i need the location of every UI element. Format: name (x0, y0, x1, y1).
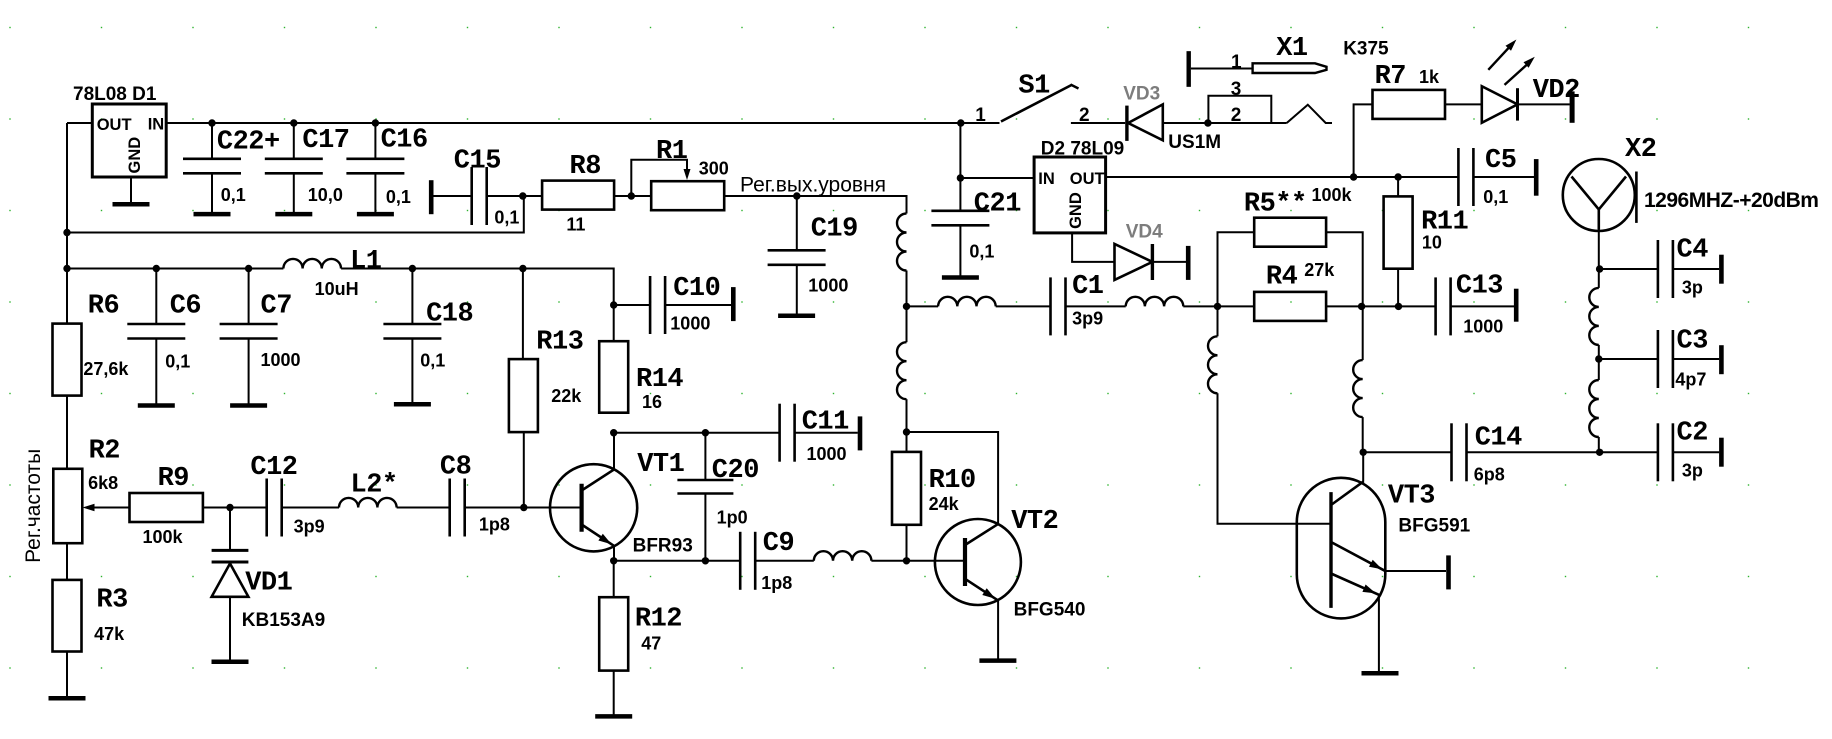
end terminal of C15 (429, 180, 434, 214)
wire VT3 collector riser (1362, 452, 1364, 481)
svg-text:L1: L1 (350, 247, 382, 277)
wire D2 OUT 9V bus (1106, 176, 1459, 178)
ground of VT2 (979, 658, 1016, 663)
svg-text:C16: C16 (381, 126, 428, 156)
wire R10 top stem (906, 432, 908, 452)
svg-text:1p0: 1p0 (717, 507, 748, 527)
wire coil to C1 (996, 305, 1051, 307)
svg-text:1000: 1000 (1463, 317, 1503, 337)
svg-text:3p: 3p (1682, 277, 1703, 297)
ground of D1 (113, 202, 150, 207)
wire +12V top bus D1 IN to S1 (166, 122, 961, 124)
wire C21 stem bottom (959, 225, 961, 276)
resistor R3 (53, 580, 128, 652)
svg-text:L2*: L2* (351, 471, 398, 501)
wire R13 bottom to base node (523, 431, 525, 507)
wire VT1 emitter row to C9 (614, 560, 741, 562)
svg-text:C1: C1 (1072, 272, 1104, 302)
svg-text:6k8: 6k8 (88, 473, 118, 493)
wire C18 bottom stem (411, 339, 413, 403)
wire C7 bottom stem (248, 339, 250, 405)
svg-text:X2: X2 (1625, 135, 1656, 165)
resistor R13 (509, 328, 584, 432)
end terminal of C3 (1719, 345, 1724, 374)
coil between C9 and VT2 (814, 551, 872, 561)
svg-text:C14: C14 (1475, 424, 1522, 454)
resistor R14 (599, 341, 683, 413)
resistor R5 (1244, 185, 1353, 247)
resistor R6 (53, 291, 130, 395)
connector X1 jack (1189, 34, 1327, 126)
wire C6 bottom stem (155, 339, 157, 405)
wire VD4 cathode to end bar (1152, 261, 1186, 263)
wire R7 to LED VD2 (1445, 103, 1482, 105)
wire C1 to right coil (1066, 305, 1126, 307)
wire C12 to L2 (282, 507, 339, 509)
svg-text:K375: K375 (1343, 39, 1389, 60)
svg-text:0,1: 0,1 (969, 241, 994, 261)
svg-text:6p8: 6p8 (1474, 465, 1505, 485)
wire R5 right lead and riser (1326, 232, 1363, 306)
svg-text:3p: 3p (1682, 460, 1703, 480)
end terminal of VD4 (1186, 246, 1191, 280)
wire R11 top stem (1397, 177, 1399, 196)
svg-text:R13: R13 (536, 328, 583, 358)
wire R12 to ground (613, 671, 615, 715)
resistor R7 (1373, 62, 1446, 119)
wire D1 GND stem (130, 177, 132, 203)
svg-text:1p8: 1p8 (761, 573, 792, 593)
wire R3 to ground (66, 652, 68, 697)
end terminal of VT3 emitter1 (1446, 555, 1451, 589)
wire C10 right stub (665, 304, 731, 306)
svg-text:27,6k: 27,6k (83, 359, 129, 379)
svg-text:300: 300 (699, 158, 729, 178)
wire R5 left lead and riser (1218, 232, 1255, 306)
wire C17 top stem (293, 123, 295, 159)
capacitor C21 (931, 190, 1021, 262)
wire C13 right stub (1451, 305, 1514, 307)
wire C14 row left (1363, 451, 1452, 453)
wire C6 top stem (155, 269, 157, 325)
svg-text:C4: C4 (1677, 236, 1709, 266)
capacitor C17 (265, 126, 350, 205)
svg-text:1000: 1000 (808, 275, 848, 295)
svg-text:R10: R10 (929, 466, 976, 496)
wire C3 right stub (1673, 358, 1719, 360)
diode VD3 US1M (1123, 84, 1221, 154)
svg-text:1000: 1000 (261, 350, 301, 370)
svg-text:11: 11 (566, 215, 585, 235)
wire C22 bottom stem (211, 173, 213, 213)
svg-text:BFG591: BFG591 (1398, 516, 1470, 537)
wire R8 to R1 (614, 195, 651, 197)
svg-text:0,1: 0,1 (494, 208, 519, 228)
wire regulated bus y=232.5 (67, 196, 524, 233)
capacitor C5 (1458, 146, 1516, 207)
svg-text:C12: C12 (250, 453, 297, 483)
choke L collector-feed lower (x=906.5) (897, 342, 907, 399)
wire choke to C14 node (1362, 417, 1364, 452)
svg-text:100k: 100k (143, 527, 184, 547)
wire C8 to VT1 base (465, 507, 582, 509)
svg-text:BFG540: BFG540 (1014, 600, 1086, 621)
coil antenna matching lower (x=1598.8) (1589, 380, 1599, 437)
wire C2 right stub (1673, 451, 1719, 453)
wire C10 left lead (614, 304, 650, 306)
coil left of C1 (938, 297, 996, 307)
svg-text:Рег.вых.уровня: Рег.вых.уровня (740, 173, 886, 196)
wire node to D2 IN (960, 177, 1034, 179)
svg-text:0,1: 0,1 (221, 185, 246, 205)
arrow R1 wiper (684, 169, 691, 180)
resistor R12 (599, 597, 682, 670)
end terminal of VD2 (1570, 91, 1575, 122)
capacitor C22 (183, 127, 280, 205)
wire VT1 collector row to C11 (614, 432, 780, 434)
wire R1 wiper bracket (631, 160, 687, 196)
capacitor C11 (780, 404, 850, 465)
svg-text:27k: 27k (1304, 260, 1335, 280)
svg-text:OUT: OUT (1070, 170, 1105, 188)
wire choke to R10 top node (906, 399, 908, 452)
wire C16 top stem (374, 123, 376, 159)
svg-text:3: 3 (1231, 79, 1242, 100)
inductor L1 (283, 247, 381, 299)
voltage regulator D2 78L09 (1034, 157, 1106, 233)
wire C4 lead (1599, 268, 1658, 270)
resistor R8 (542, 152, 614, 235)
wire R4 right lead to C13 (1326, 305, 1436, 307)
svg-text:C20: C20 (712, 456, 759, 486)
wire C9 to coil (755, 560, 814, 562)
svg-text:0,1: 0,1 (386, 187, 411, 207)
end terminal of C5 (1534, 159, 1539, 196)
capacitor C3 (1658, 327, 1708, 390)
svg-text:1000: 1000 (670, 313, 710, 333)
svg-text:0,1: 0,1 (165, 351, 190, 371)
wire oscillator supply bus y=268.5 (left of L1) (67, 268, 283, 270)
wire VT1 emitter to R12 (613, 561, 615, 597)
wire coil to C2 node (1598, 437, 1600, 452)
wire C2 lead (1600, 451, 1658, 453)
capacitor C14 (1452, 423, 1523, 484)
svg-text:1p8: 1p8 (479, 515, 510, 535)
svg-text:C19: C19 (811, 214, 858, 244)
svg-text:16: 16 (642, 392, 662, 412)
wire VT3 emitter1 to end bar (1385, 570, 1446, 572)
transistor VT1 BFR93 (550, 450, 693, 556)
ground of VD1 (212, 660, 249, 665)
svg-text:C7: C7 (261, 291, 292, 321)
wire C5 right stub (1473, 176, 1534, 178)
choke VT3 base feed (x=1217.5) (1208, 336, 1218, 393)
svg-text:24k: 24k (929, 494, 960, 514)
ground of C19 (778, 313, 815, 318)
antenna connector X2 (1563, 135, 1657, 231)
svg-text:GND: GND (1067, 192, 1085, 229)
wire S1 pin2 to VD3 (1071, 122, 1125, 124)
svg-text:VD3: VD3 (1123, 84, 1160, 105)
wire C20 bottom stem (704, 494, 706, 561)
ground of R3 (49, 696, 86, 701)
svg-text:X1: X1 (1276, 34, 1308, 64)
svg-text:VT3: VT3 (1388, 482, 1435, 512)
svg-text:R1: R1 (656, 137, 688, 167)
wire +12V top bus left of D1 (67, 122, 92, 124)
wire C19 stem bottom (796, 265, 798, 314)
wire C16 bottom stem (374, 173, 376, 213)
ground of C6 (138, 403, 175, 408)
coil antenna matching upper (x=1598.8) (1589, 288, 1599, 345)
wire VD1 stem (229, 508, 231, 550)
end terminal of C4 (1719, 255, 1724, 284)
wire C20 top stem (704, 433, 706, 480)
capacitor C6 (127, 291, 201, 371)
svg-text:R14: R14 (636, 365, 683, 395)
capacitor C10 (650, 274, 720, 334)
wire S1 pin1 stub (961, 122, 1000, 124)
svg-text:R5**: R5** (1244, 189, 1307, 219)
wire C14 to C2 node (1467, 451, 1600, 453)
capacitor C13 (1436, 272, 1504, 337)
svg-text:1k: 1k (1419, 67, 1440, 87)
wire R11 bottom stem (1397, 269, 1399, 307)
svg-text:C10: C10 (673, 274, 720, 304)
svg-text:C9: C9 (763, 529, 794, 559)
svg-text:VD1: VD1 (245, 568, 292, 598)
ground of C22 (194, 212, 231, 217)
wire R1 out to choke column (Reg.vyh.urovnya net) (724, 196, 906, 214)
wire VD3 cathode side (1163, 122, 1287, 124)
wire VT1 collector riser (613, 433, 615, 469)
wire VD1 to ground (229, 598, 231, 661)
svg-text:22k: 22k (551, 386, 582, 406)
svg-text:C11: C11 (802, 408, 849, 438)
svg-text:C6: C6 (170, 291, 201, 321)
end terminal of C13 (1514, 289, 1519, 322)
wire coil to C3 node (1598, 345, 1600, 359)
wire R7 feed column (1354, 104, 1373, 177)
wire L2 to C8 (397, 507, 450, 509)
svg-text:R4: R4 (1266, 262, 1298, 292)
wire VT2 emitter to ground (997, 601, 999, 660)
ground of C17 (275, 212, 312, 217)
wire X1 pin1 (1191, 68, 1253, 70)
svg-text:C17: C17 (302, 126, 349, 156)
wire R10 bottom stem (906, 525, 908, 561)
svg-text:3p9: 3p9 (294, 516, 325, 536)
resistor R11 (1384, 196, 1469, 268)
capacitor C19 (768, 214, 858, 295)
capacitor C8 (440, 452, 510, 536)
svg-text:10: 10 (1422, 233, 1442, 253)
switch S1 blade tip (1071, 85, 1079, 89)
wire R2 to R3 (66, 543, 68, 580)
svg-text:KB153A9: KB153A9 (242, 610, 325, 631)
svg-text:GND: GND (126, 137, 144, 174)
svg-text:VT1: VT1 (637, 450, 684, 480)
capacitor C1 (1051, 272, 1104, 335)
wire R4 left lead (1218, 305, 1255, 307)
svg-text:0,1: 0,1 (1483, 187, 1508, 207)
wire C11 right stub (795, 432, 858, 434)
wire choke down and right to VT3 base (1218, 393, 1332, 523)
svg-text:C15: C15 (454, 147, 501, 177)
svg-text:OUT: OUT (97, 116, 132, 134)
capacitor C2 (1658, 419, 1708, 482)
end terminal of C10 (731, 287, 736, 321)
end terminal of C2 (1719, 438, 1724, 467)
coil right of C1 (1126, 297, 1184, 307)
inductor L2 coil (339, 498, 397, 508)
svg-text:1: 1 (975, 105, 986, 126)
wire column x=1217.5 down to choke (1217, 306, 1219, 336)
choke L collector-feed upper (x=906.5) (897, 214, 907, 271)
wire C3 lead (1599, 358, 1658, 360)
svg-text:78L08 D1: 78L08 D1 (73, 84, 157, 105)
svg-text:Рег.частоты: Рег.частоты (22, 449, 45, 563)
LED VD2 (1482, 40, 1580, 123)
svg-text:IN: IN (1038, 170, 1055, 188)
ground of C7 (230, 403, 267, 408)
svg-text:1296MHZ-+20dBm: 1296MHZ-+20dBm (1644, 189, 1818, 212)
capacitor C7 (220, 291, 301, 370)
ground of VT3 (1362, 671, 1399, 676)
wire R10 node to VT2 collector (907, 432, 999, 524)
wire C21 stem top (959, 178, 961, 211)
svg-text:1000: 1000 (807, 444, 847, 464)
wire C4 node to coil (1598, 269, 1600, 288)
wire VD2 to end bar (1518, 103, 1570, 105)
svg-text:R12: R12 (635, 604, 682, 634)
svg-text:R6: R6 (88, 291, 119, 321)
svg-text:1: 1 (1231, 52, 1242, 73)
wire C15 to R8 with node (487, 195, 542, 197)
svg-text:10uH: 10uH (315, 279, 359, 299)
capacitor C12 (250, 453, 324, 537)
svg-text:C5: C5 (1485, 146, 1516, 176)
ground of R12 (595, 714, 632, 719)
wire C18 top stem (411, 269, 413, 325)
wire C19 stem top (796, 196, 798, 250)
wire C1 node to lower choke (906, 306, 908, 342)
switch S1 blade (1001, 85, 1072, 122)
arrow R2 wiper (83, 504, 95, 511)
transistor VT3 BFG591 (1297, 478, 1471, 619)
end terminal of C11 (858, 416, 863, 450)
svg-text:47: 47 (641, 634, 661, 654)
capacitor C4 (1658, 236, 1708, 299)
svg-text:R7: R7 (1375, 62, 1406, 92)
resistor R9 (130, 464, 203, 547)
svg-text:C21: C21 (974, 190, 1021, 220)
svg-text:C18: C18 (426, 299, 473, 329)
svg-text:0,1: 0,1 (420, 351, 445, 371)
svg-text:C22+: C22+ (217, 127, 280, 157)
wire coil to VT2 base (871, 560, 965, 562)
svg-text:C8: C8 (440, 452, 471, 482)
svg-text:IN: IN (148, 116, 165, 134)
wire C4 right stub (1673, 268, 1719, 270)
svg-text:C2: C2 (1677, 419, 1708, 449)
svg-text:10,0: 10,0 (308, 185, 343, 205)
svg-text:BFR93: BFR93 (633, 535, 693, 556)
resistor R4 (1254, 260, 1335, 321)
resistor R10 (892, 452, 976, 525)
svg-text:R8: R8 (570, 152, 601, 182)
svg-text:VD4: VD4 (1126, 221, 1163, 242)
svg-text:S1: S1 (1018, 72, 1050, 102)
wire bus y=268.5 right of L1 with corner down to R14 (341, 269, 614, 342)
svg-text:D2 78L09: D2 78L09 (1041, 139, 1124, 160)
capacitor C20 (677, 456, 759, 527)
ground of C16 (357, 212, 394, 217)
wire S1 node down to D2 IN node (959, 123, 961, 178)
wire C15 left terminal (433, 195, 472, 197)
ground of C18 (394, 402, 431, 407)
ground of C21 (942, 275, 979, 280)
capacitor C15 (454, 147, 520, 228)
diode VD4 (1115, 221, 1164, 280)
varicap diode VD1 KB153A9 (212, 550, 326, 631)
jack tip spring contact (1287, 105, 1332, 123)
svg-text:R9: R9 (158, 464, 189, 494)
wire VT3 emitter2 to ground (1378, 595, 1380, 672)
svg-text:R2: R2 (89, 436, 120, 466)
wire D2 GND to VD4 (1072, 233, 1114, 262)
choke VT3 collector feed (x=1362.7) (1353, 360, 1362, 417)
wire R13 top stem (522, 269, 524, 360)
capacitor C18 (383, 299, 473, 370)
potentiometer R1 (651, 137, 729, 210)
capacitor C16 (346, 126, 427, 207)
svg-text:C13: C13 (1456, 272, 1503, 302)
svg-text:100k: 100k (1312, 185, 1353, 205)
svg-text:2: 2 (1079, 105, 1090, 126)
svg-text:47k: 47k (94, 624, 125, 644)
wire left supply column x=67 (66, 123, 68, 324)
wire C17 bottom stem (293, 173, 295, 213)
wire jack pin3 loop (1208, 96, 1271, 123)
wire VT1 emitter riser (613, 546, 615, 561)
wire coil to R4/R5 column (1183, 305, 1217, 307)
wire C1 row left segment (907, 305, 939, 307)
svg-text:2: 2 (1231, 105, 1242, 126)
wire C22 top stem (211, 123, 213, 159)
svg-text:C3: C3 (1677, 327, 1708, 357)
svg-text:R3: R3 (96, 586, 127, 616)
wire C7 top stem (248, 269, 250, 325)
wire C3 node to coil (1598, 359, 1600, 380)
voltage regulator D1 78L08 (92, 104, 166, 177)
wire choke to C1 node (906, 271, 908, 307)
wire R6 to R2 (66, 396, 68, 469)
capacitor C9 (740, 529, 794, 593)
transistor VT2 BFG540 (935, 507, 1086, 621)
svg-text:4p7: 4p7 (1675, 369, 1706, 389)
wire R9 to C12 with VD1 node (203, 507, 267, 509)
svg-text:VT2: VT2 (1011, 507, 1058, 537)
svg-text:US1M: US1M (1168, 132, 1221, 153)
wire R2 wiper to R9 (93, 507, 130, 509)
wire X2 down to C4 node (1598, 229, 1600, 269)
potentiometer R2 (53, 436, 120, 543)
wire column x=1362.7 down from R5/R4 to choke (1362, 306, 1364, 360)
svg-text:3p9: 3p9 (1072, 308, 1103, 328)
